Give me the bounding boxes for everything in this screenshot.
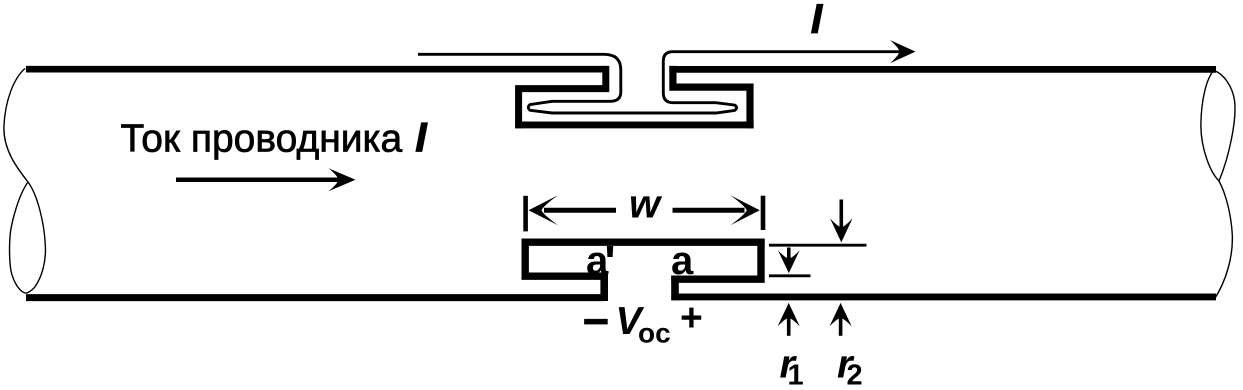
svg-text:+: + (680, 297, 703, 340)
svg-text:a': a' (586, 239, 615, 283)
label − Voc + (open-circuit voltage) (583, 295, 703, 349)
seam trough bottom (515, 121, 753, 128)
extension line at lip level (769, 274, 811, 277)
svg-text:I: I (415, 113, 428, 160)
svg-text:a: a (671, 239, 694, 283)
r1 label (780, 342, 804, 390)
svg-text:−: − (583, 295, 610, 347)
svg-text:I: I (811, 0, 824, 42)
bottom conductor left plate (26, 294, 604, 301)
depth down-arrow right (830, 200, 853, 243)
left seam fold (down, lip, wall) (519, 66, 606, 128)
top conductor left plate (26, 66, 606, 73)
top conductor right plate (669, 66, 1216, 73)
current path wire through the seam (418, 52, 901, 113)
svg-text:Ток проводника: Ток проводника (121, 117, 403, 160)
w dimension left tick (523, 196, 528, 232)
svg-text:oc: oc (638, 318, 671, 349)
svg-text:w: w (629, 183, 663, 227)
w dimension right arrow (673, 195, 760, 225)
slot right stub (671, 276, 679, 301)
conductor current arrow (176, 168, 356, 191)
depth down-arrow left (778, 248, 800, 274)
seam trough right wall, lip and fold (673, 66, 750, 128)
measurement slot right wall and lip (671, 239, 761, 280)
extension line at slot top level (769, 244, 867, 247)
slot left stub (600, 273, 608, 301)
svg-text:1: 1 (788, 359, 804, 390)
current arrowhead at I (890, 40, 916, 63)
svg-text:2: 2 (847, 359, 863, 390)
w dimension right tick (761, 196, 766, 230)
r2 up-arrow (830, 303, 852, 336)
r1 up-arrow (778, 303, 800, 336)
break squiggle left (4, 69, 46, 294)
r2 label (837, 342, 863, 390)
break squiggle right (1201, 70, 1235, 299)
measurement slot left lip and wall (525, 239, 608, 277)
w dimension left arrow (529, 195, 617, 225)
bottom conductor right plate (671, 293, 1216, 300)
measurement slot top (522, 238, 765, 245)
label: Ток проводника I (121, 113, 429, 160)
